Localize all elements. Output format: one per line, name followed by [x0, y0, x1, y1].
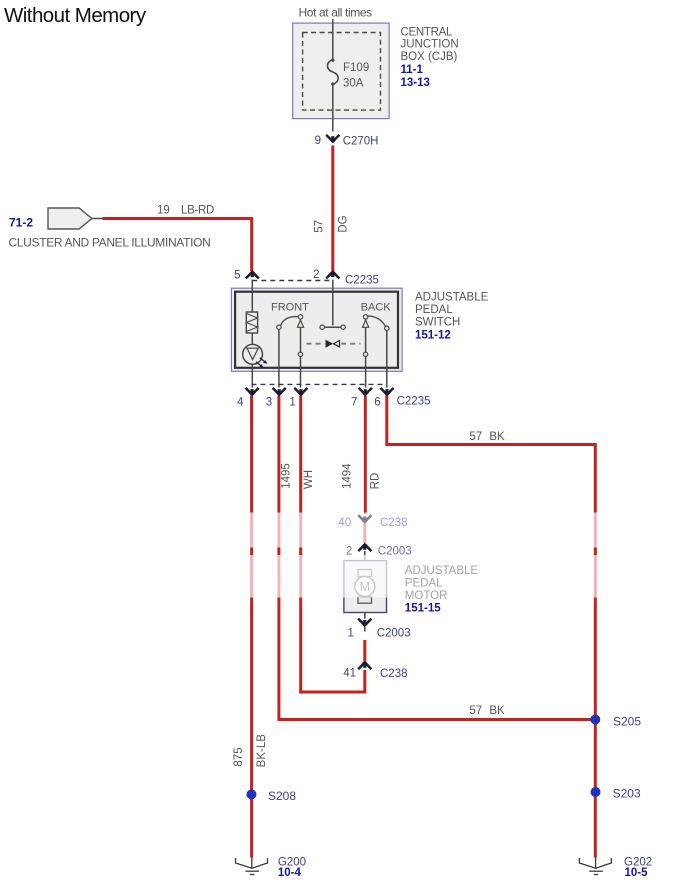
svg-text:40: 40 [338, 517, 351, 529]
svg-text:DG: DG [338, 215, 350, 232]
svg-text:BK-LB: BK-LB [256, 734, 268, 768]
svg-text:C2235: C2235 [397, 395, 431, 407]
svg-text:30A: 30A [343, 78, 364, 90]
svg-text:7: 7 [351, 397, 357, 409]
svg-text:C2003: C2003 [377, 627, 411, 639]
svg-text:S205: S205 [613, 715, 641, 729]
svg-text:C238: C238 [380, 668, 408, 680]
svg-text:57: 57 [469, 705, 482, 717]
svg-text:FRONT: FRONT [271, 302, 309, 314]
svg-text:ADJUSTABLE: ADJUSTABLE [405, 565, 479, 577]
svg-text:S203: S203 [613, 786, 641, 800]
svg-text:1494: 1494 [341, 463, 353, 489]
svg-text:C270H: C270H [343, 136, 379, 148]
svg-text:BK: BK [489, 431, 505, 443]
svg-text:57: 57 [469, 431, 482, 443]
svg-text:Without Memory: Without Memory [4, 4, 147, 27]
svg-text:LB-RD: LB-RD [181, 205, 214, 217]
svg-text:BK: BK [489, 705, 505, 717]
svg-text:5: 5 [234, 270, 240, 282]
svg-text:4: 4 [237, 397, 244, 409]
svg-text:1: 1 [289, 397, 295, 409]
svg-text:C238: C238 [380, 517, 408, 529]
svg-text:151-15: 151-15 [405, 603, 441, 615]
svg-text:WH: WH [303, 470, 315, 489]
svg-text:C2003: C2003 [378, 546, 412, 558]
svg-text:875: 875 [233, 747, 245, 766]
svg-text:ADJUSTABLE: ADJUSTABLE [415, 292, 489, 304]
svg-text:BACK: BACK [361, 302, 392, 314]
svg-text:MOTOR: MOTOR [405, 590, 448, 602]
svg-text:1495: 1495 [281, 463, 293, 489]
svg-text:JUNCTION: JUNCTION [401, 39, 459, 51]
svg-text:1: 1 [347, 627, 353, 639]
svg-text:41: 41 [343, 668, 356, 680]
svg-text:S208: S208 [268, 789, 296, 803]
svg-text:CENTRAL: CENTRAL [401, 26, 453, 38]
svg-text:71-2: 71-2 [9, 216, 33, 230]
svg-text:RD: RD [370, 473, 382, 490]
svg-text:PEDAL: PEDAL [405, 578, 443, 590]
svg-text:BOX (CJB): BOX (CJB) [401, 51, 458, 63]
svg-text:9: 9 [315, 135, 321, 147]
svg-text:13-13: 13-13 [401, 77, 430, 89]
svg-text:11-1: 11-1 [401, 64, 424, 76]
svg-text:19: 19 [157, 205, 170, 217]
svg-text:6: 6 [374, 397, 380, 409]
svg-text:Hot at all times: Hot at all times [299, 6, 373, 20]
svg-text:SWITCH: SWITCH [415, 317, 460, 329]
svg-text:10-4: 10-4 [278, 867, 302, 879]
svg-text:C2235: C2235 [345, 275, 379, 287]
svg-text:CLUSTER AND PANEL ILLUMINATION: CLUSTER AND PANEL ILLUMINATION [9, 236, 211, 250]
svg-text:F109: F109 [343, 62, 369, 74]
svg-text:57: 57 [314, 220, 326, 233]
svg-text:2: 2 [313, 269, 319, 281]
svg-text:2: 2 [346, 546, 352, 558]
svg-text:151-12: 151-12 [415, 330, 451, 342]
svg-text:PEDAL: PEDAL [415, 304, 453, 316]
svg-text:10-5: 10-5 [625, 867, 649, 879]
svg-text:3: 3 [266, 397, 272, 409]
